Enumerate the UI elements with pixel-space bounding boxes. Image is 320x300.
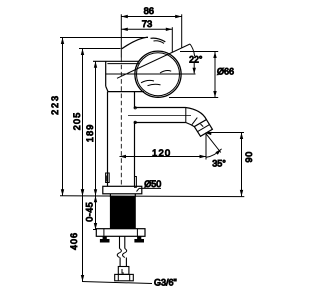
nozzle tick xyxy=(201,124,204,127)
lower nut face lines xyxy=(118,274,129,280)
bottom extension / leader line to G3/6" xyxy=(82,282,152,284)
nozzle aerator ring line xyxy=(198,125,210,132)
svg-text:120: 120 xyxy=(152,148,171,159)
dim diameter 66 xyxy=(213,52,216,98)
upper nut xyxy=(118,267,129,275)
svg-text:G3/6": G3/6" xyxy=(154,278,177,288)
svg-text:205: 205 xyxy=(72,112,82,131)
dim 73 line xyxy=(121,28,172,31)
column left edge xyxy=(107,92,109,187)
lever paddle arc right xyxy=(151,38,166,42)
head housing left edge xyxy=(105,61,107,86)
22 degree vertical leader with arrow xyxy=(193,63,195,74)
junction fillet top xyxy=(134,107,136,109)
nozzle vertical extension xyxy=(205,134,207,160)
handle knob outer circle xyxy=(135,51,181,97)
knob inner reflection arc 1 xyxy=(160,71,171,73)
junction fillet bottom xyxy=(134,121,136,123)
lower nut xyxy=(115,274,134,280)
pipe break symbol xyxy=(117,249,126,258)
svg-text:0-45: 0-45 xyxy=(85,202,95,222)
shank pipe upper xyxy=(120,236,125,248)
shank pipe lower xyxy=(120,258,126,267)
svg-text:223: 223 xyxy=(50,94,60,115)
clip detail left dark tick xyxy=(106,176,108,182)
clip detail right xyxy=(135,177,137,188)
nozzle joint line xyxy=(192,118,198,125)
svg-text:22°: 22° xyxy=(189,55,202,65)
column axis dashed xyxy=(120,58,122,187)
upper nut inner mark xyxy=(122,269,124,273)
dim 223 top extension xyxy=(60,37,148,39)
svg-text:90: 90 xyxy=(244,151,254,162)
dim 73 right extension xyxy=(171,27,173,52)
dim 66 bottom extension xyxy=(169,97,218,99)
35 degree angle line xyxy=(205,133,221,153)
body section below deck xyxy=(110,194,135,197)
dim 90 xyxy=(240,133,243,197)
spout centerline xyxy=(128,115,191,117)
mounting stud right xyxy=(134,236,144,242)
diameter 50 leader shelf xyxy=(139,187,161,189)
svg-text:Ø50: Ø50 xyxy=(144,179,161,189)
dim 205 top extension xyxy=(79,48,121,50)
diameter 50 leader diagonal xyxy=(137,188,140,191)
head lip line xyxy=(107,63,139,65)
clip detail left xyxy=(106,173,110,183)
nozzle outline xyxy=(194,120,212,137)
spout seam line xyxy=(185,108,187,123)
head housing bottom edge xyxy=(108,91,144,93)
dim 120 xyxy=(120,155,207,158)
base flange xyxy=(103,186,142,194)
column right edge lower xyxy=(134,123,136,187)
dim 90 top extension with leader arrow to nozzle xyxy=(207,132,245,134)
dim 0-45 xyxy=(94,196,97,230)
svg-text:189: 189 xyxy=(85,123,95,142)
spout top edge xyxy=(135,107,186,109)
handle knob inner circle xyxy=(137,53,180,96)
head housing top edge xyxy=(93,60,140,62)
washer plate inner line right xyxy=(136,229,138,237)
column right edge upper xyxy=(134,92,136,108)
22 degree lever diagonal line xyxy=(117,44,190,78)
dim 189 vertical line xyxy=(94,61,97,196)
head housing taper xyxy=(106,86,108,91)
dim 86 right extension xyxy=(181,14,183,47)
spout outer bend xyxy=(186,108,207,120)
22 degree horizontal reference line xyxy=(106,73,196,75)
svg-text:Ø66: Ø66 xyxy=(217,66,234,76)
dim 223 vertical line xyxy=(61,38,64,196)
dim 66 top extension xyxy=(180,51,218,53)
knob inner reflection arc 3 xyxy=(148,84,161,85)
svg-text:406: 406 xyxy=(69,232,79,250)
svg-text:35°: 35° xyxy=(212,158,226,168)
knob inner reflection arc 2 xyxy=(141,80,154,82)
dim 205 vertical line xyxy=(81,49,84,196)
gasket block (black) xyxy=(110,197,135,228)
lever paddle arc echo xyxy=(154,41,165,44)
dim 0-45 bottom extension xyxy=(93,229,97,231)
deck reference line left xyxy=(60,195,244,198)
lever paddle arc long xyxy=(122,37,148,49)
dim 406 xyxy=(81,189,84,281)
dim 86 left extension / column axis solid part xyxy=(120,14,122,57)
spout bottom edge xyxy=(135,122,186,124)
dim 86 line xyxy=(121,15,181,18)
35 degree arc xyxy=(206,149,222,158)
22 degree leader hook xyxy=(190,44,195,56)
svg-text:73: 73 xyxy=(142,18,152,29)
washer plate xyxy=(96,229,145,237)
washer plate inner line left xyxy=(103,229,105,237)
svg-text:86: 86 xyxy=(144,5,154,16)
spout inner bend xyxy=(186,123,195,127)
mounting stud left xyxy=(100,236,110,242)
